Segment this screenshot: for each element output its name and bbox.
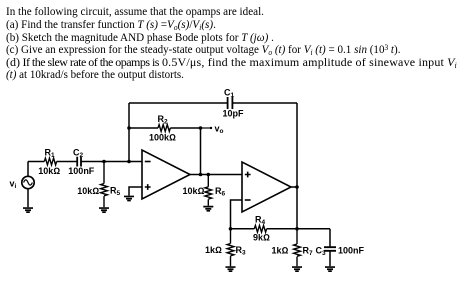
U2 minus input wire down to bottom wire bbox=[231, 200, 243, 229]
op-amp U2 bbox=[242, 162, 291, 212]
junction node R2 right / vo bbox=[199, 126, 203, 130]
vo stub bbox=[201, 127, 211, 129]
svg-text:10kΩ: 10kΩ bbox=[77, 186, 99, 196]
voltage source vi bbox=[22, 176, 34, 188]
top feedback wire left segment bbox=[129, 102, 228, 104]
vo terminal dot bbox=[210, 127, 212, 129]
junction node U2 output bbox=[295, 185, 299, 189]
svg-text:R2: R2 bbox=[158, 114, 169, 126]
U2 minus sign bbox=[245, 199, 251, 201]
ground at R6 bbox=[203, 206, 213, 212]
wire main input segment 1 bbox=[28, 161, 44, 163]
svg-text:R6: R6 bbox=[215, 186, 226, 198]
svg-text:9kΩ: 9kΩ bbox=[253, 233, 270, 243]
svg-text:100nF: 100nF bbox=[338, 246, 365, 256]
svg-text:R4: R4 bbox=[255, 214, 266, 226]
junction node R6 top bbox=[207, 173, 211, 177]
U2 plus sign bbox=[245, 172, 251, 178]
svg-text:C1: C1 bbox=[224, 88, 235, 100]
svg-text:10kΩ: 10kΩ bbox=[183, 186, 205, 196]
U1 output wire bbox=[190, 174, 242, 176]
vertical from R2 junction to opamp1 output bbox=[200, 128, 202, 175]
bottom wire segment 2 bbox=[267, 228, 330, 230]
svg-text:1kΩ: 1kΩ bbox=[272, 246, 289, 256]
resistor R7 bbox=[294, 229, 301, 266]
capacitor C3 bbox=[329, 229, 331, 247]
left vertical wire (inverting node to feedback) bbox=[128, 103, 130, 162]
resistor R6 bbox=[205, 175, 212, 206]
svg-text:R3: R3 bbox=[236, 245, 247, 257]
sine symbol inside source bbox=[24, 180, 33, 185]
problem statement text bbox=[6, 5, 264, 17]
U2 output stub to right vertical bbox=[291, 186, 297, 188]
ground at source bbox=[23, 207, 33, 213]
junction node R7 top bbox=[295, 227, 299, 231]
junction node R5 top bbox=[102, 160, 106, 164]
svg-text:10pF: 10pF bbox=[223, 109, 245, 119]
top feedback wire right segment bbox=[232, 102, 297, 104]
junction node R3 top bbox=[229, 227, 233, 231]
U1 minus sign bbox=[145, 161, 151, 163]
wire source to main wire bbox=[27, 162, 29, 177]
R2 wire to junction bbox=[170, 127, 200, 129]
svg-text:100nF: 100nF bbox=[68, 166, 95, 176]
U1 plus sign bbox=[145, 184, 151, 190]
svg-text:vo: vo bbox=[215, 124, 224, 136]
R2 feedback wire left segment bbox=[129, 127, 158, 129]
junction node left vertical R2 bbox=[127, 126, 131, 130]
right vertical wire (C1 to output to bottom) bbox=[296, 103, 298, 229]
svg-text:R7: R7 bbox=[303, 246, 314, 258]
wire C2 to opamp1 bbox=[81, 161, 142, 163]
ground at R7 bbox=[292, 266, 302, 272]
U1 plus input stub to ground bbox=[129, 187, 142, 196]
resistor R4 bbox=[254, 225, 266, 232]
resistor R3 bbox=[227, 229, 234, 266]
resistor R2 bbox=[158, 125, 170, 132]
wire source to ground bbox=[27, 189, 29, 208]
svg-text:C2: C2 bbox=[73, 148, 84, 160]
ground at R5 bbox=[99, 207, 109, 213]
capacitor C2 bbox=[77, 157, 81, 167]
svg-text:1kΩ: 1kΩ bbox=[205, 245, 222, 255]
svg-text:10kΩ: 10kΩ bbox=[38, 166, 60, 176]
resistor R5 bbox=[101, 162, 108, 208]
capacitor C1 bbox=[228, 97, 233, 109]
resistor R1 bbox=[44, 158, 56, 165]
svg-text:vi: vi bbox=[10, 179, 17, 191]
svg-text:100kΩ: 100kΩ bbox=[149, 132, 176, 142]
svg-text:R5: R5 bbox=[110, 186, 121, 198]
wire R1 to C2 bbox=[57, 161, 77, 163]
ground at C3 bbox=[325, 266, 335, 272]
junction node output vertical bbox=[199, 173, 203, 177]
ground at U1 plus input bbox=[124, 196, 134, 202]
op-amp U1 bbox=[142, 150, 190, 199]
ground at R3 bbox=[226, 266, 236, 272]
svg-text:R1: R1 bbox=[45, 148, 56, 160]
junction node left vertical on input wire bbox=[127, 160, 131, 164]
bottom wire segment 1 bbox=[231, 228, 255, 230]
